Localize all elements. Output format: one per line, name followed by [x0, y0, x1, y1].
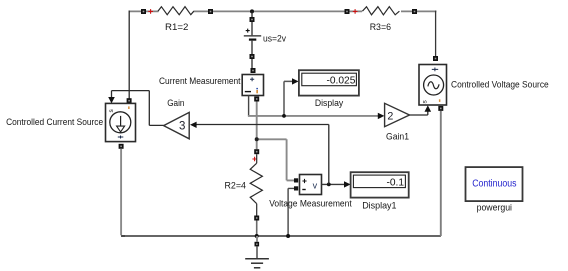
- label Gain: [167, 98, 184, 109]
- label R3=6: [370, 22, 391, 33]
- resistor R3: [345, 7, 418, 15]
- svg-text:Display: Display: [315, 98, 343, 109]
- node junction ground bus at R2/ground: [255, 234, 259, 238]
- svg-text:R1=2: R1=2: [165, 22, 188, 33]
- controlled voltage source block CVS: [419, 56, 447, 111]
- wire v-signal from VM to Display1 and Gain: [190, 122, 351, 188]
- svg-text:v: v: [313, 180, 318, 190]
- label Gain1: [386, 132, 409, 143]
- wire VM minus to ground bus: [288, 188, 294, 236]
- current measurement block CM: [242, 68, 263, 102]
- label Display: [315, 98, 343, 109]
- svg-text:us=2v: us=2v: [263, 33, 286, 44]
- label R2=4: [225, 180, 247, 191]
- node junction top bus at battery: [250, 9, 254, 13]
- label Current Measurement: [159, 76, 241, 87]
- svg-text:Voltage Measurement: Voltage Measurement: [269, 199, 352, 210]
- display block Display1: [351, 172, 409, 197]
- label us=2v: [263, 33, 286, 44]
- wire CCS bottom to ground bus: [121, 149, 125, 236]
- svg-text:3: 3: [179, 121, 185, 133]
- svg-text:R3=6: R3=6: [370, 22, 391, 33]
- wire right vertical top bus to voltage source: [435, 11, 437, 57]
- resistor R1: [141, 7, 213, 15]
- wire top bus: [129, 10, 436, 12]
- svg-text:Continuous: Continuous: [472, 178, 516, 189]
- svg-text:2: 2: [387, 111, 393, 123]
- label Voltage Measurement: [269, 199, 352, 210]
- svg-text:Gain1: Gain1: [386, 132, 409, 143]
- svg-text:R2=4: R2=4: [225, 180, 247, 191]
- wire gain3 output to CCS signal input: [108, 91, 163, 126]
- gain block Gain1 (2): [385, 103, 410, 126]
- wire i-signal from CM to Display and Gain1: [248, 78, 385, 119]
- wire left vertical top bus to current source: [128, 11, 130, 99]
- svg-text:Display1: Display1: [362, 201, 396, 212]
- label Display1: [362, 201, 396, 212]
- wire electrical CM minus to R2 and VM plus: [255, 102, 295, 181]
- svg-text:Gain: Gain: [167, 98, 184, 109]
- wire gain1 output to CVS signal input: [410, 105, 432, 115]
- svg-text:Controlled Current Source: Controlled Current Source: [6, 117, 103, 128]
- gain block Gain (3): [164, 112, 190, 138]
- voltage source us=2v (battery): [244, 11, 261, 68]
- label powergui: [477, 203, 512, 214]
- svg-text:-0.025: -0.025: [327, 75, 356, 86]
- label R1=2: [165, 22, 188, 33]
- wire bottom ground bus: [121, 235, 441, 237]
- svg-text:powergui: powergui: [477, 203, 512, 214]
- label Controlled Current Source: [6, 117, 103, 128]
- svg-text:Controlled Voltage Source: Controlled Voltage Source: [451, 79, 549, 90]
- resistor R2: [250, 149, 262, 236]
- label Controlled Voltage Source: [451, 79, 549, 90]
- svg-text:Current Measurement: Current Measurement: [159, 76, 241, 87]
- node junction ground bus at VM minus: [286, 234, 290, 238]
- voltage measurement block VM: [294, 175, 322, 195]
- wire CVS bottom to ground bus: [440, 111, 442, 236]
- svg-text:-0.1: -0.1: [386, 178, 404, 189]
- powergui block: [466, 167, 523, 201]
- ground symbol: [245, 236, 269, 268]
- controlled current source block CCS: [106, 98, 136, 149]
- display block Display: [299, 70, 359, 95]
